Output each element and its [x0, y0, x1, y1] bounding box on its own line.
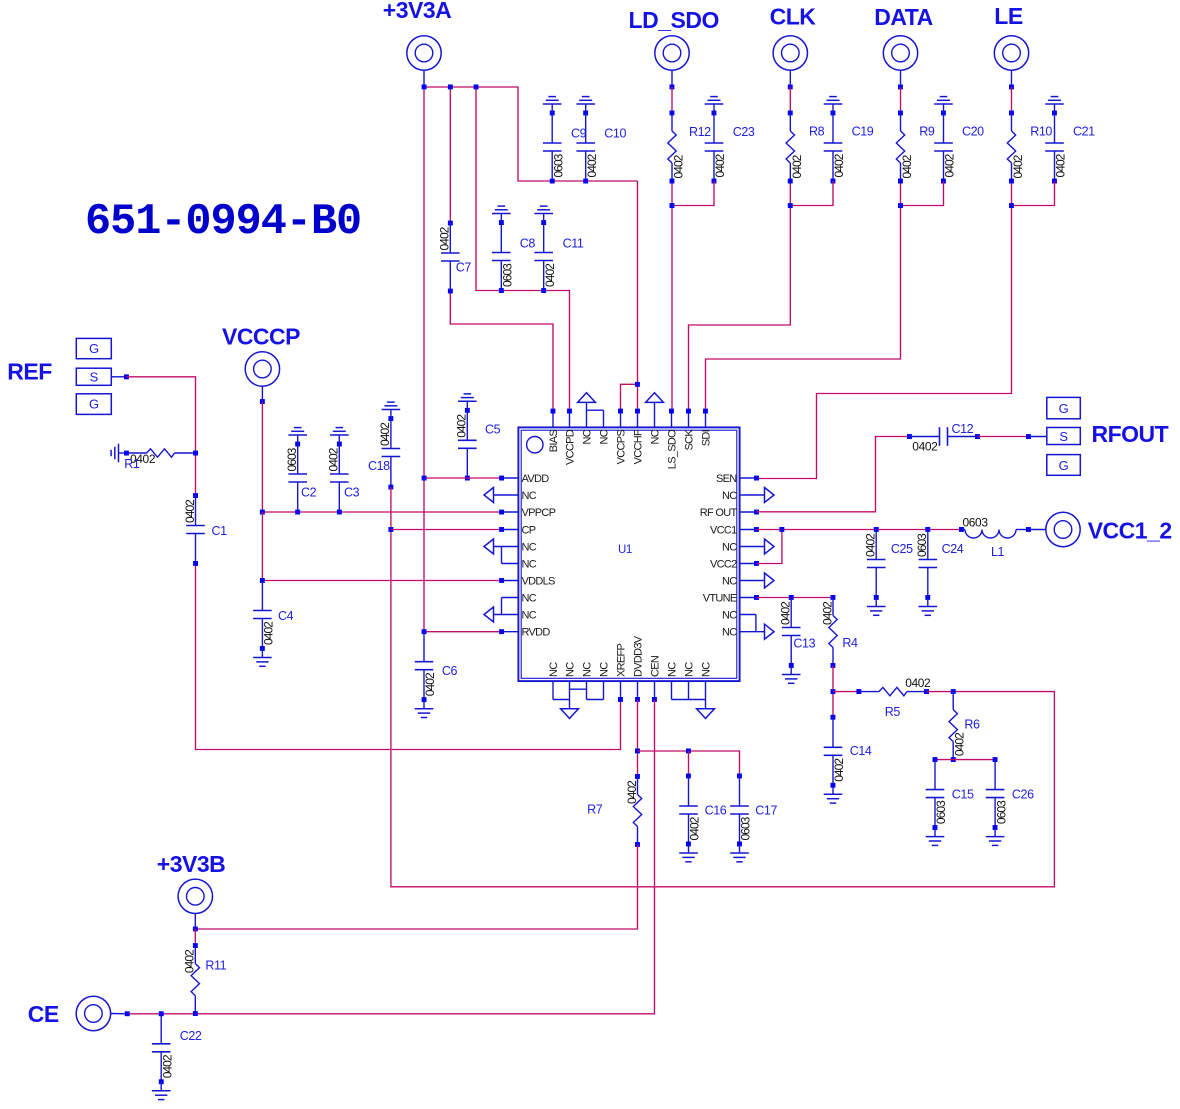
wire LD_SDO to LS_SDO	[670, 85, 675, 90]
svg-text:R5: R5	[885, 705, 901, 719]
svg-text:NC: NC	[522, 542, 537, 554]
svg-text:NC: NC	[599, 662, 611, 677]
wire VCC2 join	[757, 530, 782, 564]
connector RFOUT pad G2	[1047, 455, 1081, 476]
capacitor C11	[541, 220, 546, 225]
svg-text:C22: C22	[180, 1029, 202, 1043]
svg-text:0402: 0402	[943, 153, 957, 177]
connector +3V3B	[178, 879, 212, 913]
wire C8/C11 branch	[476, 87, 570, 411]
wire CEN to CE	[127, 700, 654, 1014]
svg-text:SCK: SCK	[683, 429, 695, 451]
wire RF OUT to C12	[757, 437, 910, 512]
svg-text:NC: NC	[722, 490, 737, 502]
svg-text:0402: 0402	[585, 153, 599, 177]
connector CE	[76, 996, 110, 1030]
wire R5 rail	[833, 691, 859, 693]
svg-text:+3V3A: +3V3A	[383, 0, 451, 23]
svg-text:NC: NC	[649, 429, 661, 444]
wire +3V3A down to AVDD/RVDD	[423, 87, 425, 632]
ground	[297, 435, 299, 444]
connector VCCCP	[245, 352, 279, 386]
capacitor C15	[933, 757, 938, 762]
svg-text:C8: C8	[520, 237, 536, 251]
ground	[832, 104, 834, 113]
ground	[875, 598, 877, 607]
U1 left NC pin leads	[494, 494, 519, 496]
svg-text:0402: 0402	[688, 816, 702, 840]
svg-text:0402: 0402	[820, 601, 834, 625]
wire VTUNE rail	[757, 597, 834, 599]
wire CLK to SCK	[788, 85, 793, 90]
ground	[119, 452, 127, 454]
U1 top NC pin leads	[586, 402, 588, 427]
svg-text:NC: NC	[722, 627, 737, 639]
ground	[551, 104, 553, 113]
wire VCCCP to VPPCP rail	[262, 402, 501, 513]
svg-text:0402: 0402	[864, 533, 878, 557]
capacitor C22	[159, 1011, 164, 1016]
svg-text:C12: C12	[952, 422, 974, 436]
resistor R9	[898, 111, 903, 116]
svg-text:NC: NC	[701, 662, 713, 677]
svg-text:CEN: CEN	[650, 655, 662, 677]
resistor R12	[670, 111, 675, 116]
svg-text:0402: 0402	[713, 153, 727, 177]
U1 bottom NC group right	[671, 681, 673, 700]
ground	[943, 104, 945, 113]
capacitor C19	[831, 111, 836, 116]
connector VCC1_2	[1046, 512, 1080, 546]
svg-text:C19: C19	[852, 124, 874, 138]
wire VCC1 rail	[757, 529, 962, 531]
capacitor C6	[423, 632, 425, 662]
wire C7 to BIAS	[450, 291, 553, 411]
resistor R4	[831, 595, 836, 600]
ground	[585, 104, 587, 113]
svg-text:C7: C7	[456, 260, 472, 274]
U1 bottom NC group left	[552, 681, 554, 700]
svg-text:VCCPD: VCCPD	[564, 429, 576, 465]
svg-text:C4: C4	[278, 609, 294, 623]
svg-text:NC: NC	[548, 662, 560, 677]
svg-text:VCC1_2: VCC1_2	[1088, 518, 1172, 544]
ground	[466, 401, 468, 410]
svg-text:C20: C20	[962, 124, 984, 138]
svg-text:L1: L1	[991, 545, 1005, 559]
svg-text:NC: NC	[722, 610, 737, 622]
svg-text:LS_SDO: LS_SDO	[666, 429, 678, 469]
wire C7 branch	[449, 87, 451, 223]
connector +3V3A	[407, 36, 441, 70]
wire RVDD rail	[424, 631, 502, 633]
capacitor C3	[337, 442, 342, 447]
ground	[688, 844, 690, 853]
capacitor C23	[712, 111, 717, 116]
ground	[739, 844, 741, 853]
svg-text:RF OUT: RF OUT	[700, 507, 738, 519]
connector LD_SDO	[655, 36, 689, 70]
ground	[934, 828, 936, 837]
svg-text:RVDD: RVDD	[522, 627, 551, 639]
wire +3V3A rail to C9/C10	[424, 87, 638, 181]
wire VCCCP to VDDLS rail	[261, 512, 263, 581]
connector REF pad S	[76, 368, 111, 385]
svg-text:0603: 0603	[501, 263, 515, 287]
connector DATA	[883, 36, 917, 70]
capacitor C18	[388, 416, 393, 421]
capacitor C20	[941, 111, 946, 116]
svg-text:0603: 0603	[994, 800, 1008, 824]
svg-text:0603: 0603	[934, 800, 948, 824]
svg-text:XREFP: XREFP	[616, 643, 628, 677]
svg-text:VCC2: VCC2	[710, 559, 737, 571]
svg-text:VCCHF: VCCHF	[632, 429, 644, 464]
ground	[390, 410, 392, 419]
svg-text:NC: NC	[581, 429, 593, 444]
ground	[160, 1082, 162, 1091]
connector RFOUT pad G1	[1047, 397, 1081, 418]
svg-text:0402: 0402	[378, 422, 392, 446]
svg-text:C24: C24	[942, 542, 964, 556]
svg-text:0603: 0603	[915, 533, 929, 557]
resistor R7	[635, 774, 640, 779]
inductor L1	[959, 527, 964, 532]
svg-text:CE: CE	[28, 1001, 59, 1027]
svg-text:C13: C13	[793, 637, 815, 651]
svg-text:C15: C15	[952, 787, 974, 801]
svg-text:SDI: SDI	[700, 429, 712, 446]
svg-text:R6: R6	[964, 718, 980, 732]
capacitor C9	[550, 111, 555, 116]
svg-text:RFOUT: RFOUT	[1092, 421, 1169, 447]
svg-text:0402: 0402	[1011, 154, 1025, 178]
svg-text:0402: 0402	[262, 621, 276, 645]
svg-text:R1: R1	[124, 457, 140, 471]
capacitor C17	[737, 774, 742, 779]
resistor R8	[788, 111, 793, 116]
U1 top pins	[552, 411, 554, 428]
resistor R5	[856, 689, 861, 694]
svg-text:LE: LE	[994, 3, 1023, 29]
svg-text:DVDD3V: DVDD3V	[633, 635, 645, 677]
svg-text:C26: C26	[1012, 787, 1034, 801]
svg-text:0402: 0402	[327, 447, 341, 471]
svg-text:0402: 0402	[832, 153, 846, 177]
svg-text:0402: 0402	[779, 601, 793, 625]
wire C15/C26 rail	[935, 759, 995, 761]
wire R4 to R5 node	[832, 666, 834, 718]
svg-text:BIAS: BIAS	[548, 430, 560, 453]
svg-text:0402: 0402	[672, 154, 686, 178]
svg-text:0603: 0603	[739, 816, 753, 840]
resistor R10	[1009, 111, 1014, 116]
svg-text:0402: 0402	[790, 154, 804, 178]
svg-text:0603: 0603	[285, 447, 299, 471]
wire C18 to CP and loop filter	[391, 487, 1055, 887]
svg-text:C18: C18	[368, 459, 390, 473]
svg-text:NC: NC	[582, 662, 594, 677]
svg-text:VCCCP: VCCCP	[222, 324, 300, 350]
svg-text:0402: 0402	[952, 732, 966, 756]
capacitor C13	[789, 595, 794, 600]
svg-text:NC: NC	[522, 559, 537, 571]
svg-text:0402: 0402	[900, 154, 914, 178]
svg-text:NC: NC	[522, 593, 537, 605]
svg-text:+3V3B: +3V3B	[157, 851, 225, 877]
capacitor C14	[831, 715, 836, 720]
svg-text:SEN: SEN	[716, 473, 737, 485]
wire DVDD3V net	[637, 700, 639, 777]
capacitor C26	[993, 757, 998, 762]
node +3V3A junctions	[422, 85, 427, 90]
svg-text:CP: CP	[522, 525, 536, 537]
svg-text:0402: 0402	[455, 414, 469, 438]
wire REF S to XREFP	[111, 376, 126, 378]
svg-text:NC: NC	[684, 662, 696, 677]
svg-text:NC: NC	[667, 662, 679, 677]
wire LE to SEN	[1009, 85, 1014, 90]
ground	[927, 598, 929, 607]
svg-text:0402: 0402	[912, 440, 938, 454]
svg-text:C10: C10	[604, 127, 626, 141]
wire DATA to SDI	[898, 85, 903, 90]
svg-text:NC: NC	[565, 662, 577, 677]
ground	[500, 214, 502, 223]
ground	[1054, 104, 1056, 113]
svg-text:NC: NC	[522, 610, 537, 622]
svg-text:C1: C1	[212, 524, 228, 538]
svg-text:DATA: DATA	[874, 4, 932, 30]
svg-text:C14: C14	[850, 744, 872, 758]
svg-text:VTUNE: VTUNE	[703, 593, 737, 605]
svg-text:LD_SDO: LD_SDO	[629, 7, 719, 33]
svg-text:0402: 0402	[160, 1054, 174, 1078]
svg-text:G: G	[89, 397, 99, 412]
U1 left pins	[502, 477, 519, 479]
svg-text:VCCPS: VCCPS	[615, 430, 627, 465]
svg-text:R12: R12	[689, 125, 711, 139]
svg-text:REF: REF	[7, 358, 52, 384]
svg-text:C11: C11	[563, 237, 584, 251]
capacitor C8	[499, 220, 504, 225]
svg-text:VPPCP: VPPCP	[522, 507, 556, 519]
svg-text:0402: 0402	[832, 758, 846, 782]
wire R5 to R6	[927, 691, 954, 693]
svg-text:0402: 0402	[438, 226, 452, 250]
svg-text:NC: NC	[598, 429, 610, 444]
svg-text:C23: C23	[733, 125, 755, 139]
svg-text:C25: C25	[891, 542, 913, 556]
svg-text:R7: R7	[587, 803, 603, 817]
svg-text:U1: U1	[618, 544, 632, 556]
capacitor C1	[193, 493, 198, 498]
svg-text:0402: 0402	[543, 263, 557, 287]
svg-text:C17: C17	[755, 804, 777, 818]
U1 right pins	[740, 477, 757, 479]
connector CLK	[773, 36, 807, 70]
capacitor C24	[925, 527, 930, 532]
capacitor C2	[295, 442, 300, 447]
svg-text:C2: C2	[301, 486, 317, 500]
svg-text:CLK: CLK	[770, 4, 817, 30]
svg-text:C21: C21	[1073, 124, 1095, 138]
svg-text:0402: 0402	[1054, 153, 1068, 177]
svg-text:0603: 0603	[963, 516, 989, 530]
resistor R11	[193, 943, 198, 948]
wire C12 to RFOUT pad	[978, 436, 1029, 438]
capacitor C16	[686, 774, 691, 779]
svg-text:0402: 0402	[905, 676, 931, 690]
ground	[832, 785, 834, 794]
ground	[423, 700, 425, 709]
svg-text:R9: R9	[919, 124, 935, 138]
capacitor C4	[261, 581, 263, 611]
svg-text:0603: 0603	[551, 153, 565, 177]
svg-text:C5: C5	[485, 423, 501, 437]
wire AVDD rail	[424, 477, 502, 479]
capacitor C7	[448, 221, 453, 226]
svg-text:R4: R4	[842, 636, 858, 650]
connector REF pad G2	[76, 394, 111, 415]
wire C21 join	[1012, 181, 1055, 206]
svg-text:VCC1: VCC1	[710, 525, 737, 537]
ground	[338, 435, 340, 444]
wire +3V3B to R11	[194, 929, 196, 946]
U1 right NC pin leads	[740, 494, 765, 496]
capacitor C25	[874, 527, 879, 532]
svg-text:VDDLS: VDDLS	[522, 576, 556, 588]
ground	[261, 649, 263, 658]
wire VCCPS/VCCHF feed	[621, 181, 638, 411]
svg-text:R11: R11	[205, 959, 226, 973]
svg-text:C9: C9	[571, 127, 587, 141]
svg-text:NC: NC	[722, 576, 737, 588]
svg-text:S: S	[1059, 429, 1068, 444]
svg-text:NC: NC	[722, 542, 737, 554]
svg-text:0402: 0402	[183, 499, 197, 523]
capacitor C21	[1052, 111, 1057, 116]
wire C23 join	[672, 181, 714, 206]
ground	[994, 828, 996, 837]
capacitor C10	[583, 111, 588, 116]
wire C20 join	[901, 181, 944, 206]
svg-text:0402: 0402	[625, 780, 639, 804]
ground	[543, 214, 545, 223]
svg-text:S: S	[90, 370, 99, 385]
capacitor C5	[465, 408, 470, 413]
svg-text:0402: 0402	[423, 672, 437, 696]
connector RFOUT pad S	[1047, 428, 1081, 445]
wire C19 join	[790, 181, 833, 206]
connector LE	[994, 36, 1028, 70]
svg-text:G: G	[89, 341, 99, 356]
svg-text:G: G	[1059, 401, 1069, 416]
svg-text:C16: C16	[705, 804, 727, 818]
resistor R6	[951, 689, 956, 694]
svg-text:G: G	[1059, 458, 1069, 473]
ground	[790, 666, 792, 675]
capacitor C12	[907, 434, 912, 439]
svg-text:651-0994-B0: 651-0994-B0	[85, 198, 361, 247]
connector REF pad G1	[76, 338, 111, 358]
svg-text:R10: R10	[1030, 124, 1052, 138]
svg-text:C6: C6	[442, 664, 458, 678]
ground	[713, 104, 715, 113]
wire R7 to +3V3B	[195, 845, 637, 930]
op-amp U1 body	[518, 427, 739, 681]
svg-text:NC: NC	[522, 490, 537, 502]
svg-text:0402: 0402	[183, 949, 197, 973]
svg-text:AVDD: AVDD	[522, 473, 550, 485]
svg-text:C3: C3	[344, 486, 360, 500]
svg-text:R8: R8	[809, 124, 825, 138]
